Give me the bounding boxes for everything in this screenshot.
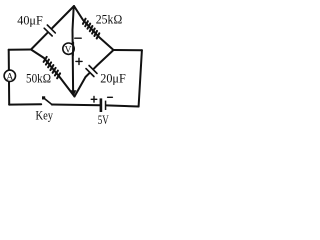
voltmeter minus polarity mark — [75, 37, 81, 39]
svg-text:V: V — [65, 46, 72, 56]
resistor R1 25kΩ hatched body — [83, 19, 99, 39]
svg-text:5V: 5V — [98, 112, 109, 127]
svg-text:A: A — [6, 73, 13, 83]
arrowhead at bottom node — [70, 90, 76, 96]
key switch lever — [44, 98, 52, 104]
svg-text:40μF: 40μF — [17, 12, 43, 27]
battery plus polarity mark — [91, 97, 97, 103]
wire from right node to right rail — [114, 49, 142, 51]
wire bottom-right arm upper segment — [94, 50, 114, 69]
svg-text:50kΩ: 50kΩ — [26, 70, 51, 85]
wire from left node to left rail — [9, 49, 31, 51]
svg-text:20μF: 20μF — [100, 71, 126, 86]
battery minus polarity mark — [108, 96, 113, 98]
svg-text:25kΩ: 25kΩ — [96, 11, 123, 26]
wire bottom-left arm — [31, 50, 75, 97]
wire voltmeter line over circle edge — [72, 43, 74, 56]
battery BT1 negative plate (right, short) — [105, 101, 107, 110]
resistor R2 50kΩ hatched body — [44, 57, 61, 78]
capacitor C2 20uF plates — [86, 66, 97, 77]
key switch knob — [42, 96, 45, 99]
wire top-left arm upper segment — [52, 6, 74, 28]
wire left rail down through ammeter — [8, 50, 11, 105]
wire bottom rail battery to right corner — [106, 105, 138, 106]
wire bottom rail key to battery — [52, 104, 100, 107]
capacitor C1 40uF plates — [44, 25, 55, 36]
voltmeter plus polarity mark — [76, 58, 82, 64]
ammeter A1 circle — [4, 70, 15, 81]
wire voltmeter branch vertical line — [73, 7, 74, 92]
svg-text:Key: Key — [36, 109, 54, 123]
wire top-left arm lower segment — [31, 33, 47, 49]
wire bottom rail left segment to key — [9, 103, 41, 105]
wire right rail — [139, 50, 142, 106]
voltmeter U1 circle — [63, 43, 74, 54]
wire top-right arm — [74, 6, 114, 50]
battery BT1 positive plate (left, tall) — [100, 98, 103, 112]
wire bottom-right arm lower segment — [75, 73, 90, 96]
